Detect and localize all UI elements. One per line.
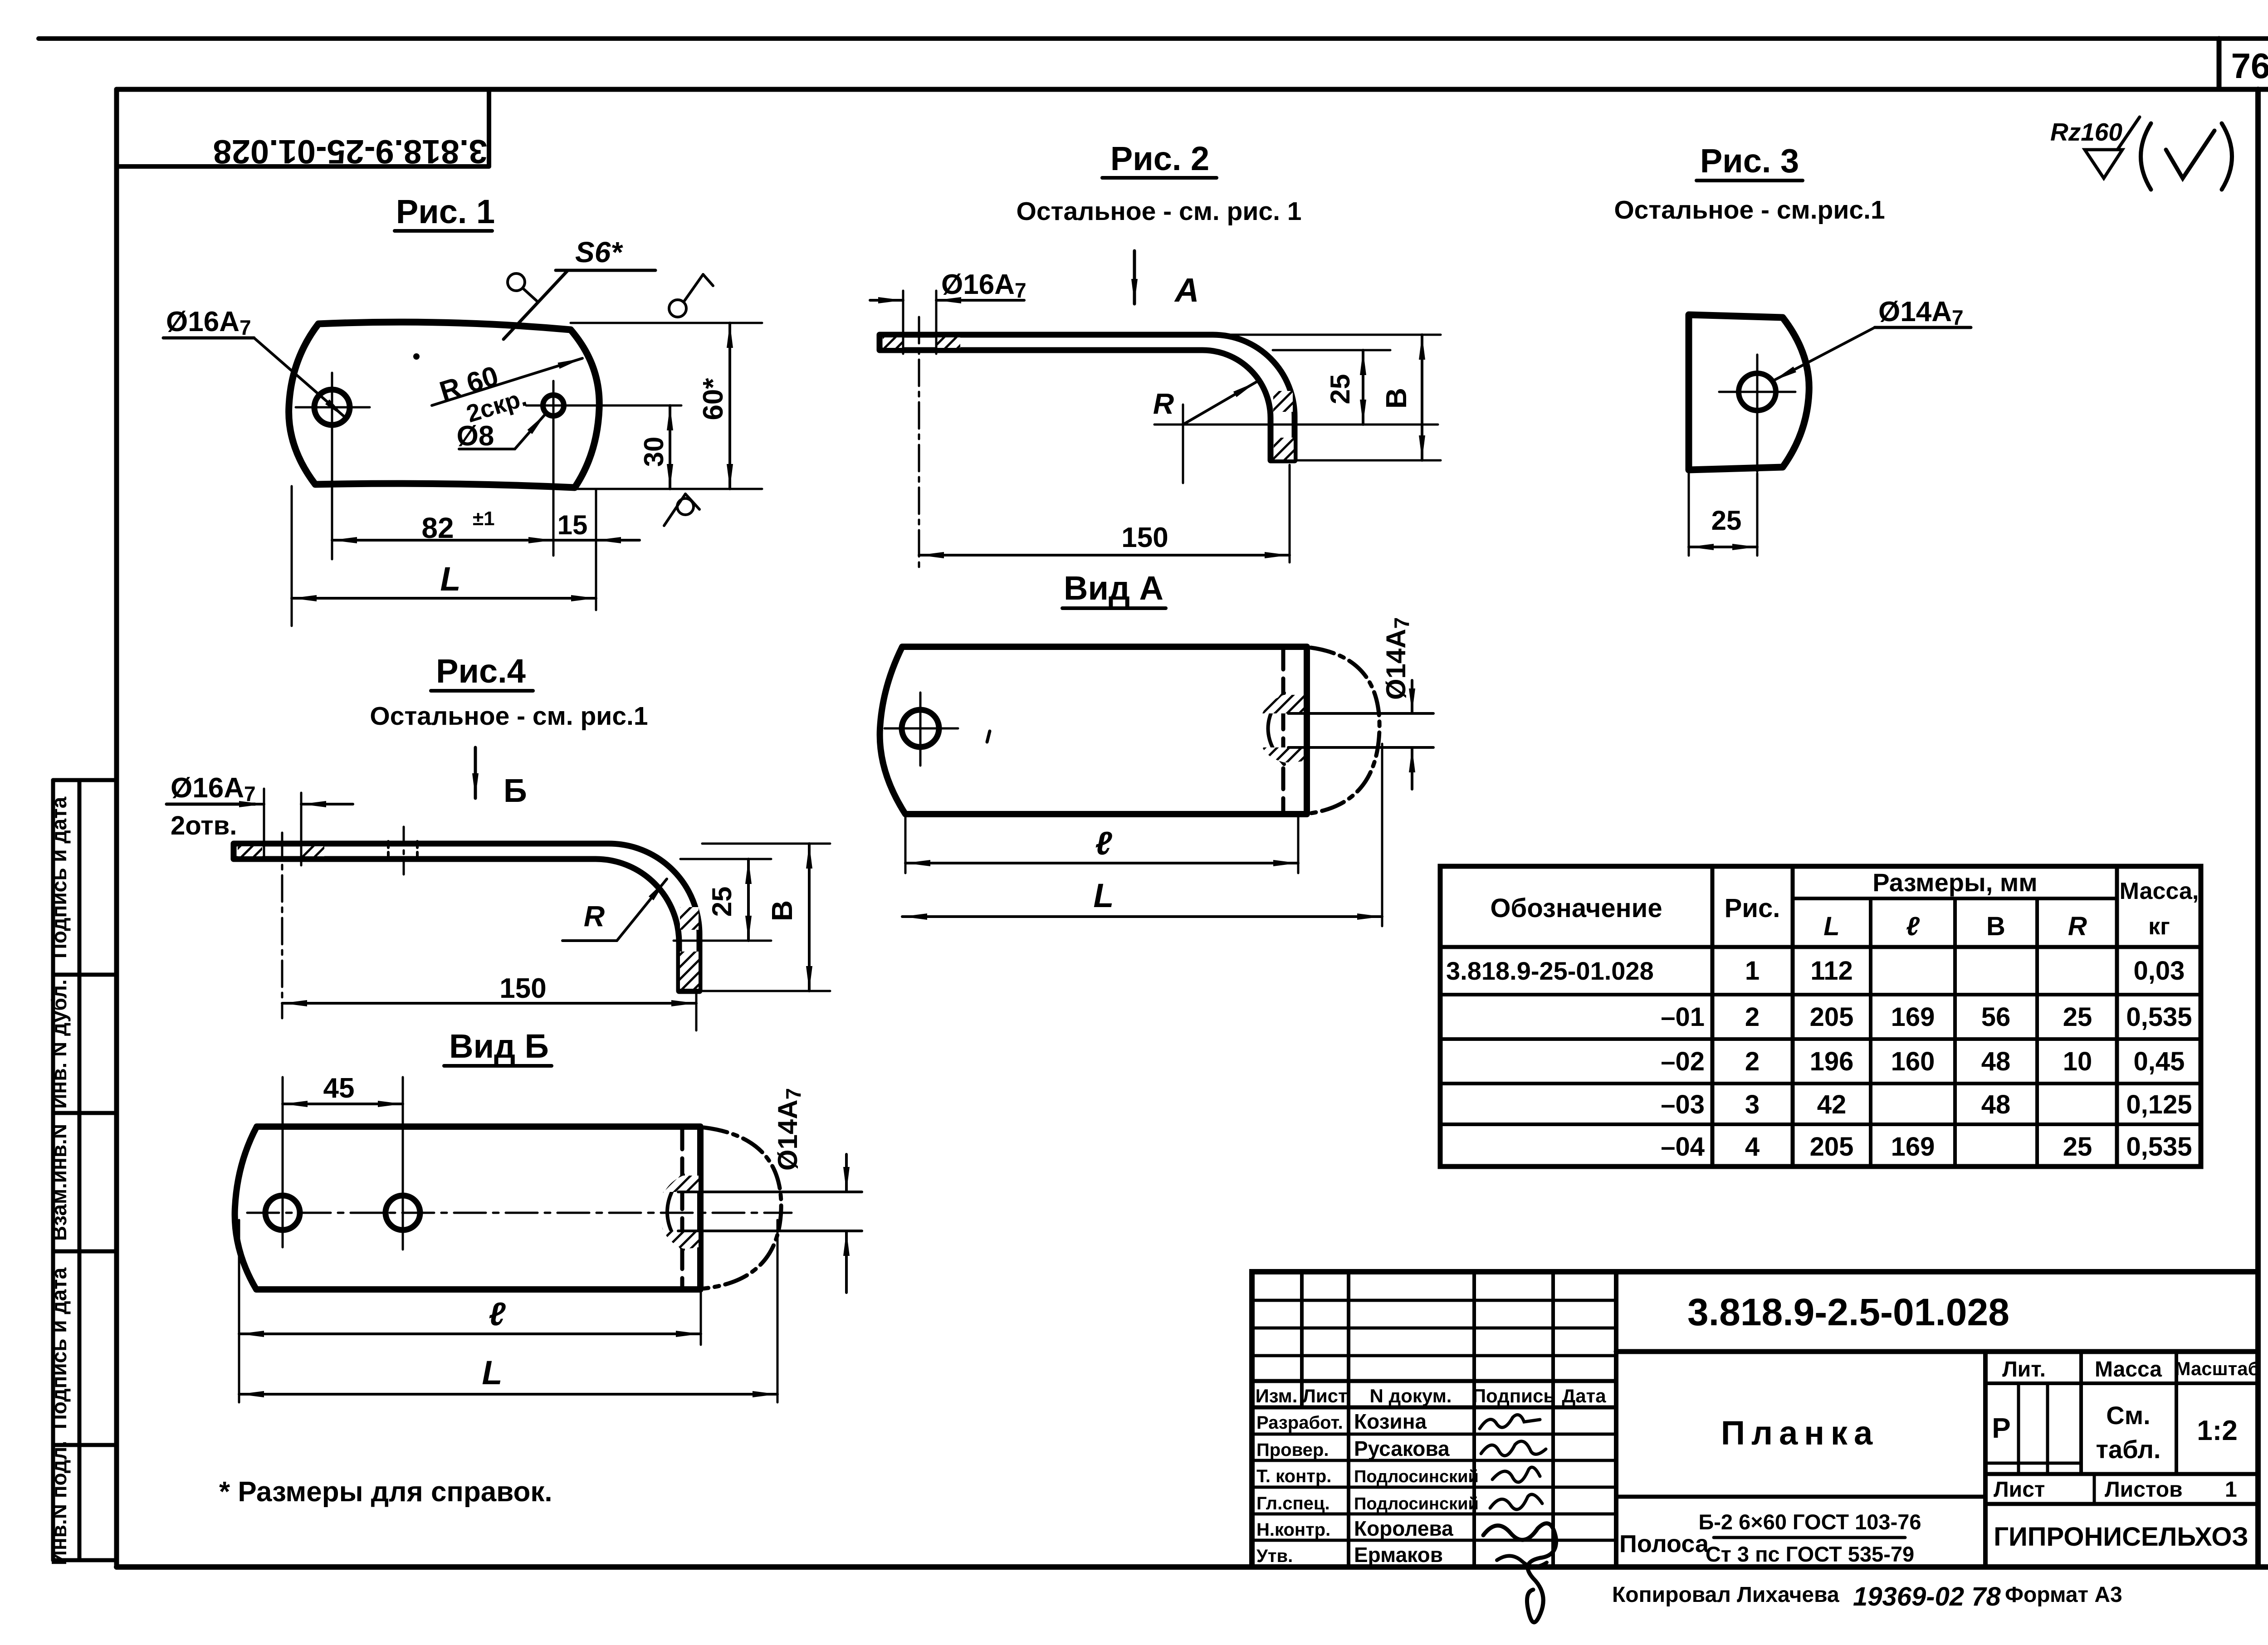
page number box 76: [2217, 39, 2222, 89]
svg-text:82: 82: [421, 512, 454, 544]
bore lines Ø14: [678, 1191, 862, 1193]
svg-text:–04: –04: [1661, 1132, 1705, 1162]
svg-text:ℓ: ℓ: [1906, 912, 1920, 941]
phantom unfolded end: [704, 1128, 781, 1289]
svg-text:Масса,: Масса,: [2120, 878, 2199, 904]
hole 2 hidden edges: [387, 841, 390, 861]
svg-text:–03: –03: [1661, 1090, 1705, 1119]
svg-text:* Размеры для справок.: * Размеры для справок.: [219, 1476, 552, 1508]
svg-text:3.818.9-25-01.028: 3.818.9-25-01.028: [213, 133, 488, 171]
leg hatch upper: [680, 907, 699, 930]
svg-text:0,45: 0,45: [2134, 1047, 2185, 1076]
svg-text:Инв. N дубл.: Инв. N дубл.: [47, 979, 71, 1108]
svg-text:19369-02 78: 19369-02 78: [1853, 1582, 2001, 1611]
svg-text:В: В: [1380, 388, 1413, 409]
svg-text:Масса: Масса: [2095, 1357, 2162, 1381]
svg-text:Ø14A7: Ø14A7: [1878, 296, 1964, 329]
section hatch left end: [238, 846, 262, 856]
dim 150: [1289, 465, 1291, 562]
countersink hatch upper: [1262, 695, 1304, 713]
svg-text:1: 1: [2225, 1478, 2237, 1502]
section hatch right of hole: [936, 337, 960, 348]
frame left line: [114, 89, 119, 1567]
machining symbol top right: [669, 300, 686, 317]
svg-text:Остальное - см.рис.1: Остальное - см.рис.1: [1614, 195, 1885, 225]
machining symbol bottom right: [677, 498, 694, 515]
svg-text:Рис.4: Рис.4: [436, 652, 526, 690]
countersink hatch lower: [661, 1225, 699, 1249]
svg-text:–01: –01: [1661, 1002, 1705, 1032]
svg-text:Ст 3 пс ГОСТ 535-79: Ст 3 пс ГОСТ 535-79: [1706, 1542, 1914, 1566]
title horizontals left part: [1252, 1299, 1616, 1302]
section hatch right of hole 1: [301, 846, 324, 856]
svg-text:Лист: Лист: [1994, 1478, 2045, 1502]
svg-text:R: R: [1153, 387, 1174, 420]
svg-text:169: 169: [1891, 1002, 1935, 1032]
svg-text:45: 45: [323, 1073, 355, 1104]
svg-text:Rz160: Rz160: [2050, 118, 2122, 146]
Вид Б plate outline: [235, 1127, 700, 1289]
leg hatch lower: [680, 952, 699, 989]
Рис.3 plate outline: [1689, 315, 1809, 470]
Вид А plate outline: [880, 647, 1307, 814]
right sub-block: [1983, 1352, 1988, 1567]
svg-text:Ø16A7: Ø16A7: [941, 269, 1026, 302]
svg-text:Н.контр.: Н.контр.: [1256, 1520, 1330, 1540]
svg-text:0,125: 0,125: [2126, 1090, 2192, 1119]
Рис.1 hole Ø8: [543, 395, 564, 416]
Рис.1 hole Ø16: [314, 390, 350, 425]
svg-text:Рис. 3: Рис. 3: [1700, 142, 1799, 180]
svg-text:Полоса: Полоса: [1619, 1530, 1709, 1557]
svg-text:Провер.: Провер.: [1256, 1440, 1329, 1460]
dim L: [1381, 744, 1383, 926]
dim b: [238, 1220, 240, 1402]
svg-text:30: 30: [639, 437, 669, 467]
bend line dashed: [680, 1128, 684, 1288]
svg-text:76: 76: [2231, 46, 2268, 86]
hole 1 centerline: [281, 833, 283, 1018]
signature Подлосинский 2: [1490, 1494, 1542, 1509]
Рис.1 plate outline: [289, 322, 600, 488]
svg-text:205: 205: [1810, 1132, 1854, 1162]
svg-text:L: L: [1093, 877, 1114, 914]
dim L: [777, 1220, 779, 1402]
svg-text:25: 25: [707, 887, 737, 917]
svg-text:Масштаб: Масштаб: [2175, 1358, 2259, 1379]
Рис.2 profile outline: [880, 335, 1295, 460]
signature Подлосинский 1: [1492, 1467, 1540, 1482]
table verticals: [1711, 866, 1715, 1167]
dim 60*: [571, 322, 762, 324]
dim В: [1220, 334, 1441, 336]
svg-text:Дата: Дата: [1562, 1385, 1606, 1406]
svg-text:60*: 60*: [698, 378, 729, 420]
svg-text:табл.: табл.: [2096, 1435, 2161, 1464]
hole 2 centerline: [403, 827, 405, 874]
svg-text:Подпись: Подпись: [1472, 1385, 1555, 1406]
svg-text:48: 48: [1981, 1047, 2011, 1076]
svg-text:Листов: Листов: [2105, 1478, 2183, 1502]
svg-text:Взам.инв.N: Взам.инв.N: [47, 1124, 71, 1241]
R60 leader and labels: [432, 358, 582, 405]
frame right line: [2255, 89, 2261, 1567]
svg-text:Б-2 6×60 ГОСТ 103-76: Б-2 6×60 ГОСТ 103-76: [1698, 1510, 1921, 1534]
leg hatch lower: [1274, 438, 1294, 459]
svg-text:56: 56: [1981, 1002, 2011, 1032]
svg-text:Подпись и дата: Подпись и дата: [47, 796, 71, 958]
svg-text:L: L: [440, 560, 460, 598]
svg-text:Изм.: Изм.: [1256, 1385, 1298, 1406]
svg-text:112: 112: [1810, 956, 1853, 986]
svg-text:кг: кг: [2148, 913, 2170, 940]
svg-text:25: 25: [2063, 1132, 2092, 1162]
svg-text:Ø8: Ø8: [457, 420, 494, 452]
Вид Б hole 1: [265, 1196, 300, 1230]
svg-text:±1: ±1: [473, 508, 495, 530]
svg-text:48: 48: [1981, 1090, 2011, 1119]
svg-text:А: А: [1174, 271, 1199, 309]
svg-text:Формат А3: Формат А3: [2005, 1583, 2122, 1607]
svg-text:Инв.N подл.: Инв.N подл.: [47, 1441, 71, 1565]
svg-text:Ø14A7: Ø14A7: [1381, 617, 1413, 700]
countersunk hole section arc: [667, 1175, 683, 1250]
Вид Б hole 2: [386, 1196, 420, 1230]
svg-text:Б: Б: [503, 773, 527, 809]
Рис.4 profile outline: [234, 844, 699, 991]
svg-text:L: L: [1823, 912, 1839, 941]
dim 25: [680, 858, 771, 860]
svg-text:1: 1: [1745, 956, 1760, 986]
dim 30: [603, 405, 681, 407]
svg-text:Р: Р: [1992, 1413, 2010, 1444]
svg-text:150: 150: [499, 973, 546, 1004]
signature Королева big blotch: [1483, 1523, 1556, 1622]
svg-text:25: 25: [1325, 374, 1355, 405]
svg-text:196: 196: [1810, 1047, 1854, 1076]
svg-text:Ø14A7: Ø14A7: [772, 1088, 805, 1171]
svg-text:Планка: Планка: [1721, 1414, 1879, 1452]
svg-text:Гл.спец.: Гл.спец.: [1256, 1494, 1330, 1513]
Вид А hole: [902, 710, 939, 747]
svg-text:Ø16A7: Ø16A7: [166, 306, 251, 339]
svg-text:Лит.: Лит.: [2002, 1357, 2046, 1381]
dim b: [904, 816, 907, 873]
svg-text:25: 25: [2063, 1002, 2092, 1032]
svg-text:R: R: [584, 900, 605, 932]
phantom unfolded end: [1311, 648, 1379, 813]
countersink hatch upper: [661, 1176, 699, 1200]
svg-text:169: 169: [1891, 1132, 1935, 1162]
title block outer: [1252, 1272, 2258, 1567]
svg-text:0,535: 0,535: [2126, 1002, 2192, 1032]
svg-text:Рис. 1: Рис. 1: [396, 193, 495, 230]
svg-text:Ø16A7: Ø16A7: [171, 772, 256, 805]
svg-text:См.: См.: [2106, 1401, 2150, 1430]
svg-text:0,535: 0,535: [2126, 1132, 2192, 1162]
(√) symbol: [2141, 123, 2151, 190]
svg-text:15: 15: [557, 510, 588, 540]
table outer box: [1440, 866, 2201, 1167]
svg-text:Королева: Королева: [1354, 1517, 1453, 1540]
svg-text:42: 42: [1817, 1090, 1847, 1119]
dim 45: [282, 1077, 284, 1247]
designation row bottom: [1616, 1349, 2258, 1354]
svg-text:–02: –02: [1661, 1047, 1705, 1076]
svg-text:Подлосинский: Подлосинский: [1354, 1467, 1479, 1486]
dim L: [291, 486, 293, 626]
svg-text:Размеры, мм: Размеры, мм: [1872, 868, 2037, 897]
sheet top rule line: [39, 36, 2268, 41]
svg-text:В: В: [766, 900, 798, 921]
svg-text:2: 2: [1745, 1047, 1760, 1076]
svg-text:Подлосинский: Подлосинский: [1354, 1494, 1479, 1513]
svg-text:160: 160: [1891, 1047, 1935, 1076]
frame top line: [117, 87, 2268, 92]
svg-text:ℓ: ℓ: [1095, 825, 1112, 862]
svg-text:Т. контр.: Т. контр.: [1256, 1466, 1331, 1486]
svg-text:ℓ: ℓ: [489, 1296, 506, 1333]
top-left stamp box (rotated 180): [117, 89, 489, 166]
svg-text:10: 10: [2063, 1047, 2092, 1076]
svg-text:Копировал Лихачева: Копировал Лихачева: [1612, 1583, 1839, 1607]
svg-text:S6*: S6*: [575, 236, 623, 268]
svg-text:25: 25: [1711, 505, 1742, 536]
svg-text:Ермаков: Ермаков: [1354, 1543, 1443, 1567]
signature Козина: [1480, 1415, 1540, 1429]
svg-text:N докум.: N докум.: [1370, 1385, 1452, 1406]
svg-text:4: 4: [1745, 1132, 1760, 1162]
svg-text:Подпись и дата: Подпись и дата: [47, 1267, 71, 1429]
Рис.3 hole Ø14: [1739, 373, 1776, 410]
horizontal centerline: [247, 1212, 792, 1214]
svg-text:Козина: Козина: [1354, 1410, 1427, 1433]
svg-text:205: 205: [1810, 1002, 1854, 1032]
dim 25: [1688, 473, 1690, 556]
signature Русакова: [1481, 1441, 1546, 1456]
dim 15: [595, 489, 597, 610]
svg-text:Вид А: Вид А: [1064, 569, 1163, 607]
bore lines Ø14: [1288, 712, 1433, 715]
table horizontals: [1793, 897, 2117, 900]
finish symbol circle near S6: [508, 273, 525, 291]
hole centerline: [918, 317, 920, 568]
svg-text:ГИПРОНИСЕЛЬХОЗ: ГИПРОНИСЕЛЬХОЗ: [1994, 1522, 2248, 1552]
countersink hatch lower: [1262, 747, 1304, 762]
svg-text:0,03: 0,03: [2134, 956, 2185, 986]
dim В: [702, 843, 830, 845]
svg-text:Остальное - см. рис.1: Остальное - см. рис.1: [370, 702, 648, 731]
section arrow А: [1133, 251, 1136, 304]
svg-text:Рис. 2: Рис. 2: [1110, 140, 1209, 177]
svg-text:1:2: 1:2: [2197, 1415, 2238, 1446]
bend line dashed: [1281, 649, 1286, 813]
dim 25: [1273, 349, 1390, 351]
svg-text:3.818.9-2.5-01.028: 3.818.9-2.5-01.028: [1687, 1291, 2009, 1333]
svg-text:Рис.: Рис.: [1725, 893, 1780, 923]
svg-text:2: 2: [1745, 1002, 1760, 1032]
svg-text:L: L: [482, 1354, 502, 1391]
left GOST column strip: [53, 780, 117, 1560]
section arrow Б: [474, 747, 477, 798]
leg hatch upper: [1273, 391, 1293, 412]
svg-text:Обозначение: Обозначение: [1490, 893, 1662, 923]
section hatch left end: [883, 337, 902, 348]
svg-text:3: 3: [1745, 1090, 1760, 1119]
stray ink dot: [413, 353, 420, 360]
svg-text:В: В: [1986, 912, 2005, 941]
svg-text:Разработ.: Разработ.: [1256, 1413, 1343, 1433]
svg-text:Русакова: Русакова: [1354, 1437, 1450, 1460]
countersunk hole section arc: [1268, 693, 1285, 764]
title verticals left part: [1300, 1272, 1304, 1407]
polosa area top: [1616, 1495, 1985, 1499]
svg-text:3.818.9-25-01.028: 3.818.9-25-01.028: [1446, 957, 1654, 985]
dim 82±1: [331, 443, 333, 559]
stray mark: [987, 731, 990, 742]
svg-text:R: R: [2068, 912, 2087, 941]
svg-text:150: 150: [1121, 522, 1168, 553]
svg-text:2отв.: 2отв.: [171, 811, 237, 840]
svg-text:Лист: Лист: [1302, 1385, 1347, 1406]
svg-text:Вид Б: Вид Б: [449, 1027, 549, 1065]
svg-text:Утв.: Утв.: [1256, 1546, 1293, 1566]
svg-text:Остальное - см. рис. 1: Остальное - см. рис. 1: [1017, 197, 1302, 226]
dim 150: [695, 994, 698, 1030]
frame bottom line: [117, 1564, 2268, 1570]
